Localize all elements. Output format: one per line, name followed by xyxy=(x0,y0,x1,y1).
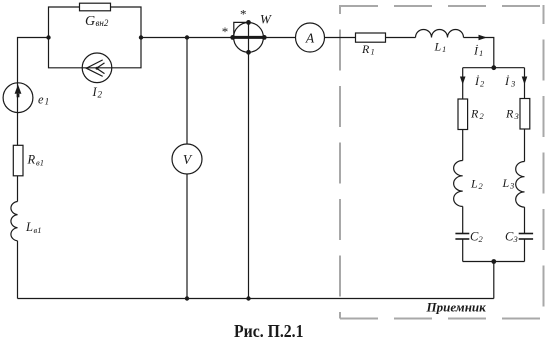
svg-text:L: L xyxy=(502,176,510,190)
svg-text:Рис. П.2.1: Рис. П.2.1 xyxy=(234,321,304,341)
svg-text:*: * xyxy=(222,24,229,39)
svg-text:в1: в1 xyxy=(34,225,42,235)
svg-text:1: 1 xyxy=(45,98,50,108)
svg-text:2: 2 xyxy=(479,181,484,191)
svg-text:вн2: вн2 xyxy=(96,18,109,28)
svg-text:*: * xyxy=(240,7,247,22)
svg-text:L: L xyxy=(470,177,478,191)
svg-text:3: 3 xyxy=(514,111,519,121)
svg-text:2: 2 xyxy=(480,79,485,89)
svg-text:2: 2 xyxy=(480,111,485,121)
svg-text:e: e xyxy=(38,93,44,107)
svg-text:3: 3 xyxy=(513,234,518,244)
svg-text:R: R xyxy=(505,107,514,121)
svg-text:1: 1 xyxy=(442,44,446,54)
svg-text:L: L xyxy=(25,220,33,234)
svg-text:1: 1 xyxy=(371,47,375,57)
svg-text:2: 2 xyxy=(479,234,484,244)
svg-text:Приемник: Приемник xyxy=(426,300,487,315)
svg-text:R: R xyxy=(361,42,370,56)
svg-text:İ: İ xyxy=(504,74,510,88)
svg-text:R: R xyxy=(470,107,479,121)
svg-text:3: 3 xyxy=(509,181,514,191)
svg-text:A: A xyxy=(305,30,315,45)
svg-text:L: L xyxy=(434,40,442,54)
svg-text:G: G xyxy=(85,14,95,29)
svg-text:2: 2 xyxy=(98,90,103,100)
svg-text:1: 1 xyxy=(479,48,483,58)
svg-text:R: R xyxy=(27,153,36,167)
svg-text:3: 3 xyxy=(510,79,515,89)
svg-text:в1: в1 xyxy=(36,158,44,168)
svg-text:W: W xyxy=(260,12,272,27)
